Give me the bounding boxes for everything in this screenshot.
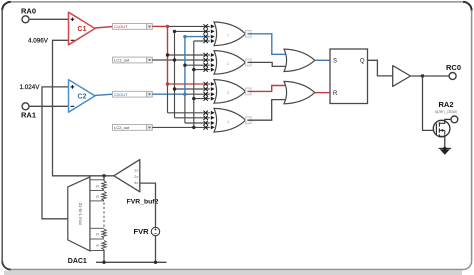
- svg-text:4.096V: 4.096V: [28, 38, 49, 45]
- svg-text:1.024V: 1.024V: [20, 84, 41, 91]
- pin RA1: [22, 103, 29, 110]
- label 4.096V: [28, 38, 49, 45]
- svg-text:2: 2: [227, 62, 229, 66]
- svg-text:DAC1: DAC1: [68, 258, 87, 265]
- resistor R (ladder bottom 1): [96, 229, 106, 238]
- input select dropdown 4 (LC2_out): [113, 125, 153, 131]
- amplifier FVR_buf2: [114, 160, 140, 192]
- node ladder bottom: [102, 261, 105, 264]
- wire riser3 to gate1 input3: [185, 36, 210, 38]
- wire riser1 to gate3 input1: [168, 83, 210, 85]
- wire d4 row to gate4 input4: [152, 126, 210, 128]
- wire riser2 to gate1 input2: [175, 30, 210, 32]
- gate 3 output pad: [246, 88, 252, 95]
- wire FVR to FVR_buf2 input: [140, 183, 156, 227]
- OR gate 1 with inverting-select inputs: [204, 22, 246, 46]
- wire d2 row to gate2 input2: [152, 59, 210, 61]
- wire riser1 to gate2 input1: [168, 54, 210, 56]
- wire riser4 to gate2 input4: [194, 69, 210, 71]
- wire riser2 to gate3 input2: [175, 88, 210, 90]
- wire ladder tap 2: [90, 189, 104, 191]
- svg-text:4: 4: [227, 120, 229, 124]
- comparator C1: [69, 12, 96, 45]
- wire gate1 output to S-OR input: [248, 34, 288, 55]
- node FVR bottom: [154, 261, 157, 264]
- svg-text:RA2: RA2: [438, 100, 453, 109]
- wire buffer output to RC0: [411, 75, 450, 77]
- output buffer: [393, 66, 411, 87]
- wire C2 output to input-select 3: [95, 94, 113, 95]
- wire C1 output to input-select 1: [95, 27, 113, 28]
- OR gate R (reset): [284, 81, 315, 103]
- resistor R (ladder bottom 2): [96, 241, 106, 250]
- wire riser 4 (LC2_out vertical): [193, 41, 195, 127]
- wire riser2 to gate4 input2: [175, 117, 210, 119]
- svg-text:C2OUT: C2OUT: [114, 92, 128, 97]
- wire gate3 output to R-OR input: [248, 86, 288, 92]
- wire R-OR output to flip-flop R: [315, 92, 330, 94]
- svg-text:R: R: [96, 195, 99, 199]
- wire buffer output to Q2 gate: [423, 76, 434, 130]
- mux DAC1 (31-to-1): [68, 177, 90, 251]
- svg-text:R: R: [333, 91, 338, 97]
- svg-text:R: R: [96, 233, 99, 237]
- wire riser3 to gate4 input3: [185, 122, 210, 124]
- svg-text:open_drain: open_drain: [435, 109, 458, 114]
- wire ladder tap 4: [90, 227, 104, 229]
- ground: [439, 147, 451, 155]
- svg-text:2x: 2x: [134, 174, 138, 179]
- svg-text:1: 1: [227, 33, 229, 37]
- wire riser4 to gate3 input4: [194, 98, 210, 100]
- pin RA0 label: [21, 7, 36, 16]
- wire Q to output buffer: [368, 60, 393, 76]
- OR gate 2 with inverting-select inputs: [204, 51, 246, 75]
- svg-text:FVR: FVR: [134, 227, 150, 236]
- wire riser 3 (C2OUT vertical): [184, 37, 186, 123]
- wire riser1 to gate4 input1: [168, 112, 210, 114]
- svg-text:4x: 4x: [134, 180, 138, 185]
- pin RA1 label: [21, 111, 36, 120]
- pin RA0: [22, 16, 29, 23]
- wire ladder tap 6: [90, 250, 104, 252]
- wire d3 row to gate3 input3: [152, 93, 210, 95]
- pin RC0 label: [446, 63, 461, 72]
- svg-text:C2: C2: [78, 93, 87, 100]
- wire bottom rail: [96, 261, 167, 263]
- label 1.024V: [20, 84, 41, 91]
- pin RA2 label: [438, 100, 453, 109]
- OR gate 3 with inverting-select inputs: [204, 80, 246, 104]
- svg-text:RC0: RC0: [446, 63, 461, 72]
- svg-text:LC2_out: LC2_out: [114, 125, 130, 130]
- wire FVR to bottom rail: [155, 236, 157, 263]
- input select dropdown 1 (C1OUT): [113, 24, 153, 30]
- wire gate2 output to S-OR input: [248, 62, 288, 66]
- gate 2 output pad: [246, 59, 252, 66]
- SR flip-flop U1: [330, 49, 368, 104]
- wire riser 1 (C1OUT vertical): [167, 26, 169, 112]
- svg-text:RA0: RA0: [21, 7, 36, 16]
- wire riser3 to gate2 input3: [185, 64, 210, 66]
- gate 4 output pad: [246, 117, 252, 124]
- OR gate S (set): [284, 49, 315, 71]
- label FVR_buf2: [127, 198, 159, 205]
- pin RC0: [449, 73, 456, 80]
- resistor R (ladder top 1): [96, 181, 106, 190]
- wire ladder tap 3: [90, 200, 104, 202]
- input select dropdown 2 (LC1_out): [113, 57, 153, 63]
- wire d1 row to gate1 input1: [152, 25, 210, 27]
- wire ladder dashed continuation: [103, 203, 105, 227]
- svg-text:C1OUT: C1OUT: [114, 24, 128, 29]
- svg-text:Q: Q: [360, 59, 365, 65]
- gate 1 output pad: [246, 30, 252, 37]
- wire RA1 to C2 inverting input: [29, 105, 69, 107]
- OR gate 4 with inverting-select inputs: [204, 108, 246, 132]
- transistor Q2 (open drain NMOS): [433, 119, 451, 148]
- input select dropdown 3 (C2OUT): [113, 91, 153, 97]
- svg-text:1x: 1x: [134, 168, 138, 173]
- svg-text:LC1_out: LC1_out: [114, 58, 130, 63]
- wire 1.024V net: DAC1 output to C2 noninverting input: [42, 87, 69, 219]
- resistor R (ladder top 2): [96, 192, 106, 201]
- wire RA0 to C1 noninverting input: [29, 18, 69, 20]
- label open_drain: [435, 109, 458, 114]
- wire ladder bottom segment: [103, 250, 105, 263]
- label FVR: [134, 227, 150, 236]
- wire gate4 output to R-OR input: [248, 100, 288, 121]
- svg-text:S: S: [333, 59, 337, 65]
- comparator C2: [69, 80, 96, 113]
- crossbar junction dots: [166, 25, 196, 129]
- svg-text:R: R: [96, 185, 99, 189]
- node DAC reference top: [102, 174, 105, 177]
- svg-text:3: 3: [227, 91, 229, 95]
- svg-text:R: R: [96, 244, 99, 248]
- svg-text:RA1: RA1: [21, 111, 36, 120]
- node buffer output junction: [421, 74, 424, 77]
- wire 4.096V net: FVR_buf2 output to C1 inverting input: [53, 40, 114, 176]
- wire ladder tap 5: [90, 238, 104, 240]
- pin RA2: [451, 116, 458, 123]
- wire riser 2 (LC1_out vertical): [174, 31, 176, 117]
- wire ladder tap 1: [90, 179, 104, 181]
- wire ladder top segment: [103, 176, 105, 181]
- voltage source FVR: [151, 227, 159, 235]
- wire S-OR output to flip-flop S: [315, 59, 330, 61]
- wire riser4 to gate1 input4: [194, 40, 210, 42]
- svg-text:FVR_buf2: FVR_buf2: [127, 198, 159, 205]
- svg-text:31-to-1 mux: 31-to-1 mux: [78, 203, 83, 226]
- label DAC1: [68, 258, 87, 265]
- svg-text:C1: C1: [78, 26, 87, 33]
